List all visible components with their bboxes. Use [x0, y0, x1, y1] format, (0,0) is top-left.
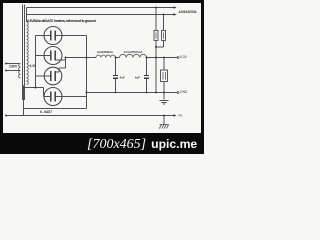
svg-text:4uF: 4uF — [120, 75, 126, 79]
svg-text:47mH/500mA: 47mH/500mA — [124, 50, 144, 54]
svg-text:A3/6AS/534: A3/6AS/534 — [179, 10, 197, 14]
svg-text:[700x465]upic.me: [700x465]upic.me — [87, 137, 197, 152]
svg-text:6.3V: 6.3V — [30, 64, 37, 68]
svg-text:4uF: 4uF — [135, 75, 141, 79]
svg-text:6.3V: 6.3V — [180, 55, 188, 59]
svg-text:GND: GND — [180, 90, 188, 94]
svg-text:6.3V/5A to all 6AS7 heaters, r: 6.3V/5A to all 6AS7 heaters, referenced … — [27, 18, 97, 23]
svg-text:PE: PE — [179, 114, 183, 118]
svg-text:6 - 6AS7: 6 - 6AS7 — [40, 110, 52, 114]
svg-text:230V: 230V — [9, 65, 18, 69]
svg-text:1mH/500mA: 1mH/500mA — [97, 50, 114, 54]
